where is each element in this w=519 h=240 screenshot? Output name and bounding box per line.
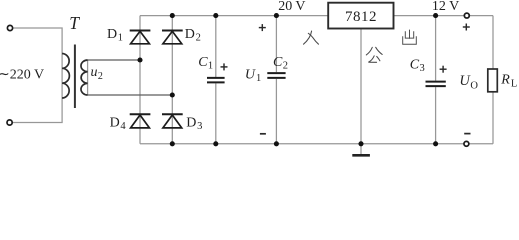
transformer T secondary winding [81,60,88,95]
svg-text:R: R [500,73,510,88]
label C1 plus [221,63,228,70]
node C2 / top bus [274,13,279,18]
label CJK output (chu) [403,30,417,45]
svg-text:u: u [91,65,98,80]
wire secondary bottom to bridge [88,94,173,96]
svg-text:D: D [185,27,195,42]
svg-text:2: 2 [98,71,103,82]
svg-text:1: 1 [256,73,261,84]
diode D4 [130,114,151,128]
wire AC bottom lead [13,98,62,123]
wire load rail [492,16,494,69]
svg-text:3: 3 [197,121,202,132]
wire top bus right of 7812 [394,15,494,17]
wire C1 rail [215,16,217,77]
transformer core [74,45,76,109]
wire bottom bus [140,143,493,145]
diode D3 [162,114,183,128]
svg-text:U: U [245,67,256,82]
svg-text:2: 2 [283,61,288,72]
wire C2 rail [275,16,277,73]
transformer T primary winding [62,54,69,99]
capacitor C2 plates [267,73,285,78]
capacitor C3 plates [426,82,446,87]
node C1 / top bus [213,13,218,18]
svg-text:O: O [470,81,478,92]
label CJK input (ru) [304,31,319,44]
svg-text:∼220 V: ∼220 V [0,68,44,83]
label UO plus [463,24,470,31]
node secondary-top / rail1 [137,57,142,62]
node C3 / top bus [433,13,438,18]
node C1 / bottom bus [213,141,218,146]
svg-text:4: 4 [120,121,126,132]
node common / bottom bus [358,141,363,146]
svg-text:D: D [110,116,120,131]
node C3 / bottom bus [433,141,438,146]
wire secondary top to bridge [88,59,140,61]
wire AC top lead [13,28,62,54]
terminal AC top [7,25,12,30]
svg-text:2: 2 [196,33,201,44]
svg-text:D: D [186,116,196,131]
capacitor C1 plates [207,78,225,83]
wire bridge rail 1 [139,16,141,144]
label U1 plus [259,24,266,31]
wire top bus left of 7812 [140,15,328,17]
label UO minus [464,133,470,135]
wire primary chord [61,54,63,99]
svg-text:L: L [511,79,517,90]
diode D2 [162,31,183,44]
terminal output - [464,141,469,146]
svg-text:3: 3 [420,63,425,74]
node rail2 / top bus [170,13,175,18]
svg-text:1: 1 [208,61,213,72]
node secondary-bottom / rail2 [170,92,175,97]
wire bridge rail 2 [171,16,173,144]
wire C3 rail [435,16,437,81]
label CJK common (gong) [366,47,382,62]
svg-text:7812: 7812 [345,9,377,25]
label C3 plus [440,66,447,73]
diode D1 [130,31,151,44]
svg-text:1: 1 [118,32,123,43]
svg-text:T: T [69,13,80,33]
terminal output + [464,13,469,18]
svg-text:C: C [198,55,208,70]
svg-text:20 V: 20 V [278,0,305,14]
node: junction dots [137,13,438,146]
svg-text:C: C [410,57,420,72]
node C2 / bottom bus [274,141,279,146]
wire ground stub [360,144,362,154]
terminal AC bottom [7,120,12,125]
node rail2 / bottom bus [170,141,175,146]
svg-text:C: C [273,55,283,70]
resistor RL body [488,69,498,92]
svg-text:D: D [107,27,117,42]
regulator U1 7812 box [328,3,393,29]
wire secondary chord [87,60,89,95]
wire 7812 common stub [360,29,362,144]
label U1 minus [260,133,266,135]
ground [352,154,370,157]
svg-text:12 V: 12 V [432,0,459,14]
